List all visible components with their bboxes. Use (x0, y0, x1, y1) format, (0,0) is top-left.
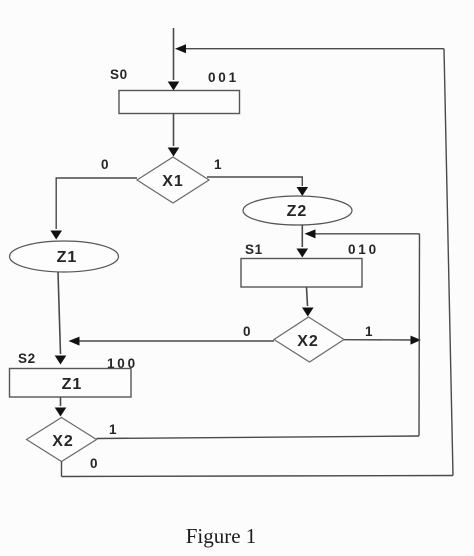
svg-text:Z1: Z1 (57, 249, 78, 266)
wire: entry line into S0 (168, 28, 180, 91)
state box S0 (119, 91, 240, 114)
svg-text:X2: X2 (52, 433, 74, 450)
wire: top feedback horizontal (175, 44, 444, 53)
wire: X2 lower 1-branch to inner vertical (97, 436, 420, 439)
wire: inner vertical return (418, 234, 421, 436)
output ellipse Z2 (243, 196, 352, 225)
wire: inner feedback into S1 entry (305, 229, 420, 238)
wire: X2 upper 0-branch to S2 entry (69, 337, 275, 346)
svg-text:S2: S2 (18, 351, 36, 366)
svg-text:S1: S1 (245, 242, 263, 257)
svg-text:0: 0 (101, 157, 109, 172)
state box S1 (241, 259, 362, 288)
svg-text:001: 001 (208, 70, 239, 85)
svg-text:X1: X1 (162, 173, 184, 190)
svg-text:1: 1 (109, 422, 117, 437)
svg-text:1: 1 (214, 157, 222, 172)
decision diamond X1 (137, 157, 209, 203)
wire: X2 lower 0-branch down (61, 462, 63, 477)
wire: X2 upper 1-branch to inner vertical (344, 336, 421, 345)
wire: X1 0-branch to Z1 (50, 178, 137, 240)
svg-text:Figure 1: Figure 1 (186, 524, 257, 548)
state box S2 with output Z1 (10, 369, 132, 398)
wire: S0 to X1 (168, 114, 180, 157)
output ellipse Z1 (10, 241, 119, 272)
decision diamond X2 lower (27, 418, 97, 462)
svg-text:0: 0 (90, 456, 98, 471)
svg-text:Z2: Z2 (287, 203, 308, 220)
decision diamond X2 upper (274, 317, 344, 362)
svg-text:X2: X2 (297, 333, 319, 350)
wire: X1 1-branch to Z2 (207, 177, 308, 196)
svg-text:S0: S0 (110, 67, 128, 82)
wire: S2 to X2 lower (55, 397, 67, 417)
svg-text:010: 010 (348, 242, 379, 257)
wire: Z2 to S1 (297, 225, 309, 258)
svg-text:Z1: Z1 (62, 376, 83, 393)
wire: S1 to X2 upper (302, 287, 314, 317)
svg-text:1: 1 (365, 324, 373, 339)
wire: outer right vertical return (444, 49, 453, 476)
wire: Z1 to S2 (55, 272, 67, 365)
wire: bottom feedback horizontal (62, 476, 454, 477)
svg-text:0: 0 (243, 324, 251, 339)
